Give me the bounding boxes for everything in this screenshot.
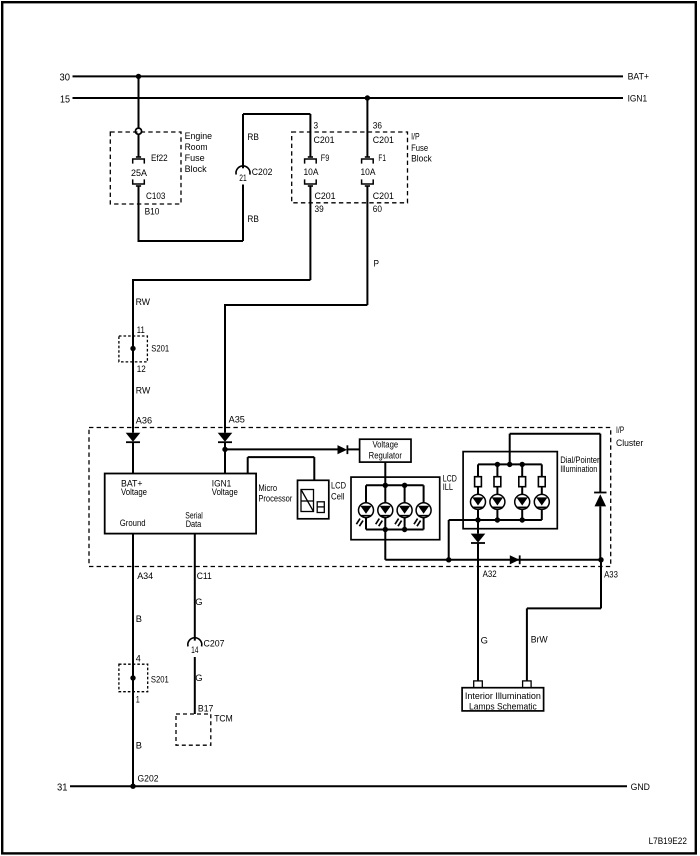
svg-text:B: B <box>136 739 142 750</box>
svg-text:4: 4 <box>136 653 141 664</box>
svg-text:Interior Illumination: Interior Illumination <box>465 691 541 702</box>
svg-text:C201: C201 <box>373 190 394 201</box>
svg-text:BrW: BrW <box>531 633 548 644</box>
svg-text:Block: Block <box>411 153 432 164</box>
svg-text:B17: B17 <box>198 702 214 713</box>
svg-text:S201: S201 <box>151 343 169 354</box>
svg-text:Voltage: Voltage <box>372 439 398 450</box>
svg-text:Data: Data <box>186 518 202 529</box>
svg-text:Illumination: Illumination <box>560 463 597 474</box>
svg-text:BAT+: BAT+ <box>628 71 650 82</box>
svg-text:A36: A36 <box>136 414 152 425</box>
svg-text:Room: Room <box>185 141 208 152</box>
svg-text:RB: RB <box>247 213 259 224</box>
svg-text:C11: C11 <box>197 570 212 581</box>
svg-text:RW: RW <box>136 384 151 395</box>
svg-text:Block: Block <box>185 163 207 174</box>
svg-text:A32: A32 <box>483 568 497 579</box>
svg-text:25A: 25A <box>131 167 148 178</box>
svg-text:B10: B10 <box>145 205 160 216</box>
svg-text:P: P <box>374 258 380 269</box>
svg-text:C201: C201 <box>315 190 336 201</box>
svg-text:10A: 10A <box>304 166 320 177</box>
svg-text:C201: C201 <box>373 134 394 145</box>
svg-text:C201: C201 <box>314 134 335 145</box>
svg-text:I/P: I/P <box>616 424 624 435</box>
svg-text:12: 12 <box>137 363 146 374</box>
svg-text:Cell: Cell <box>331 491 345 502</box>
svg-text:1: 1 <box>136 694 140 705</box>
svg-text:A34: A34 <box>137 570 153 581</box>
svg-text:G202: G202 <box>138 773 159 784</box>
svg-text:C207: C207 <box>204 638 225 649</box>
svg-text:Processor: Processor <box>258 493 292 504</box>
svg-text:Fuse: Fuse <box>411 142 428 153</box>
svg-text:GND: GND <box>631 781 651 792</box>
svg-text:RW: RW <box>136 296 151 307</box>
svg-text:Fuse: Fuse <box>185 152 205 163</box>
svg-text:Ef22: Ef22 <box>151 152 168 163</box>
svg-text:C202: C202 <box>252 166 273 177</box>
svg-text:36: 36 <box>373 119 382 130</box>
svg-text:A35: A35 <box>229 413 245 424</box>
svg-text:LCD: LCD <box>331 480 346 491</box>
svg-text:Voltage: Voltage <box>212 486 238 497</box>
svg-text:TCM: TCM <box>214 712 233 723</box>
svg-text:39: 39 <box>315 203 324 214</box>
svg-text:Lamps Schematic: Lamps Schematic <box>469 701 537 712</box>
svg-text:F9: F9 <box>321 152 330 163</box>
svg-text:3: 3 <box>314 119 319 130</box>
svg-text:10A: 10A <box>361 166 377 177</box>
svg-text:15: 15 <box>60 93 70 105</box>
svg-text:Regulator: Regulator <box>369 450 402 461</box>
svg-text:G: G <box>195 672 202 683</box>
svg-text:Ground: Ground <box>120 517 146 528</box>
svg-text:G: G <box>195 596 202 607</box>
svg-text:B: B <box>136 613 142 624</box>
svg-text:S201: S201 <box>151 674 169 685</box>
svg-text:11: 11 <box>137 324 145 335</box>
svg-text:60: 60 <box>373 203 382 214</box>
svg-text:F1: F1 <box>378 152 386 163</box>
svg-text:RB: RB <box>247 131 259 142</box>
svg-text:A33: A33 <box>604 568 618 579</box>
svg-text:Voltage: Voltage <box>121 486 147 497</box>
svg-text:ILL: ILL <box>443 481 453 492</box>
svg-text:C103: C103 <box>146 190 165 201</box>
svg-text:IGN1: IGN1 <box>628 92 648 103</box>
svg-text:30: 30 <box>60 72 71 84</box>
svg-text:31: 31 <box>57 782 68 794</box>
svg-text:Engine: Engine <box>185 130 212 141</box>
svg-text:21: 21 <box>239 172 246 183</box>
svg-text:I/P: I/P <box>411 130 420 141</box>
svg-text:Cluster: Cluster <box>616 437 643 448</box>
svg-text:14: 14 <box>191 644 198 655</box>
svg-text:L7B19E22: L7B19E22 <box>649 836 687 846</box>
svg-text:G: G <box>481 635 488 646</box>
